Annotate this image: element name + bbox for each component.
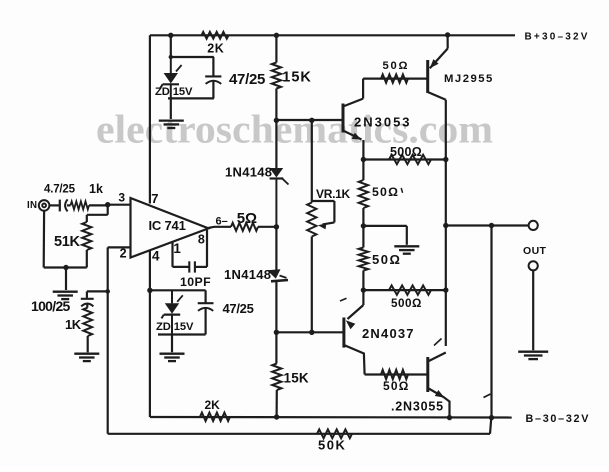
svg-text:50Ω: 50Ω — [372, 252, 401, 267]
svg-text:2K: 2K — [207, 42, 224, 56]
svg-text:500Ω: 500Ω — [390, 145, 422, 159]
svg-text:1N4148: 1N4148 — [224, 267, 271, 282]
svg-text:electroschematics.com: electroschematics.com — [96, 107, 493, 152]
svg-text:6–: 6– — [216, 215, 228, 227]
svg-text:7: 7 — [151, 191, 159, 206]
svg-text:1K: 1K — [65, 317, 82, 332]
svg-text:IN: IN — [27, 200, 37, 211]
svg-text:2N3053: 2N3053 — [354, 115, 412, 130]
svg-text:15K: 15K — [284, 371, 309, 386]
svg-text:IC 741: IC 741 — [149, 218, 186, 233]
svg-text:4: 4 — [152, 248, 160, 263]
svg-text:2N4037: 2N4037 — [362, 326, 415, 341]
svg-text:100/25: 100/25 — [31, 298, 71, 314]
svg-text:15K: 15K — [282, 69, 312, 85]
svg-text:50Ω: 50Ω — [383, 379, 410, 393]
svg-text:B+30–32V: B+30–32V — [525, 31, 590, 42]
svg-text:50Ω: 50Ω — [383, 60, 410, 72]
svg-text:1N4148: 1N4148 — [225, 165, 272, 180]
svg-text:3: 3 — [118, 191, 125, 205]
svg-text:ZD 15V: ZD 15V — [155, 86, 193, 98]
svg-text:1: 1 — [173, 241, 181, 256]
svg-text:8: 8 — [198, 232, 206, 246]
svg-text:ZD 15V: ZD 15V — [156, 321, 194, 333]
svg-text:VR.1K: VR.1K — [316, 187, 350, 201]
svg-text:OUT: OUT — [523, 245, 547, 257]
svg-text:47/25: 47/25 — [223, 301, 254, 316]
svg-text:1k: 1k — [89, 182, 103, 196]
svg-text:B–30–32V: B–30–32V — [526, 413, 591, 425]
svg-text:47/25: 47/25 — [229, 71, 265, 88]
svg-text:2K: 2K — [205, 398, 221, 412]
svg-text:4.7/25: 4.7/25 — [44, 184, 76, 196]
svg-text:500Ω: 500Ω — [391, 297, 422, 310]
svg-text:50K: 50K — [318, 438, 346, 453]
svg-text:MJ2955: MJ2955 — [444, 73, 494, 85]
svg-text:50Ω: 50Ω — [372, 185, 399, 199]
svg-text:10PF: 10PF — [180, 275, 211, 289]
svg-text:.2N3055: .2N3055 — [391, 400, 444, 414]
svg-text:5Ω: 5Ω — [237, 210, 257, 227]
svg-text:51K: 51K — [54, 234, 81, 250]
